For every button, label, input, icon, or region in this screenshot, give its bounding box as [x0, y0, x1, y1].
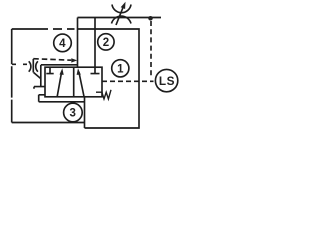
svg-text:4: 4 — [59, 38, 66, 50]
svg-text:LS: LS — [159, 74, 175, 88]
svg-text:1: 1 — [117, 64, 124, 76]
svg-text:3: 3 — [69, 108, 75, 120]
svg-text:2: 2 — [103, 37, 109, 49]
